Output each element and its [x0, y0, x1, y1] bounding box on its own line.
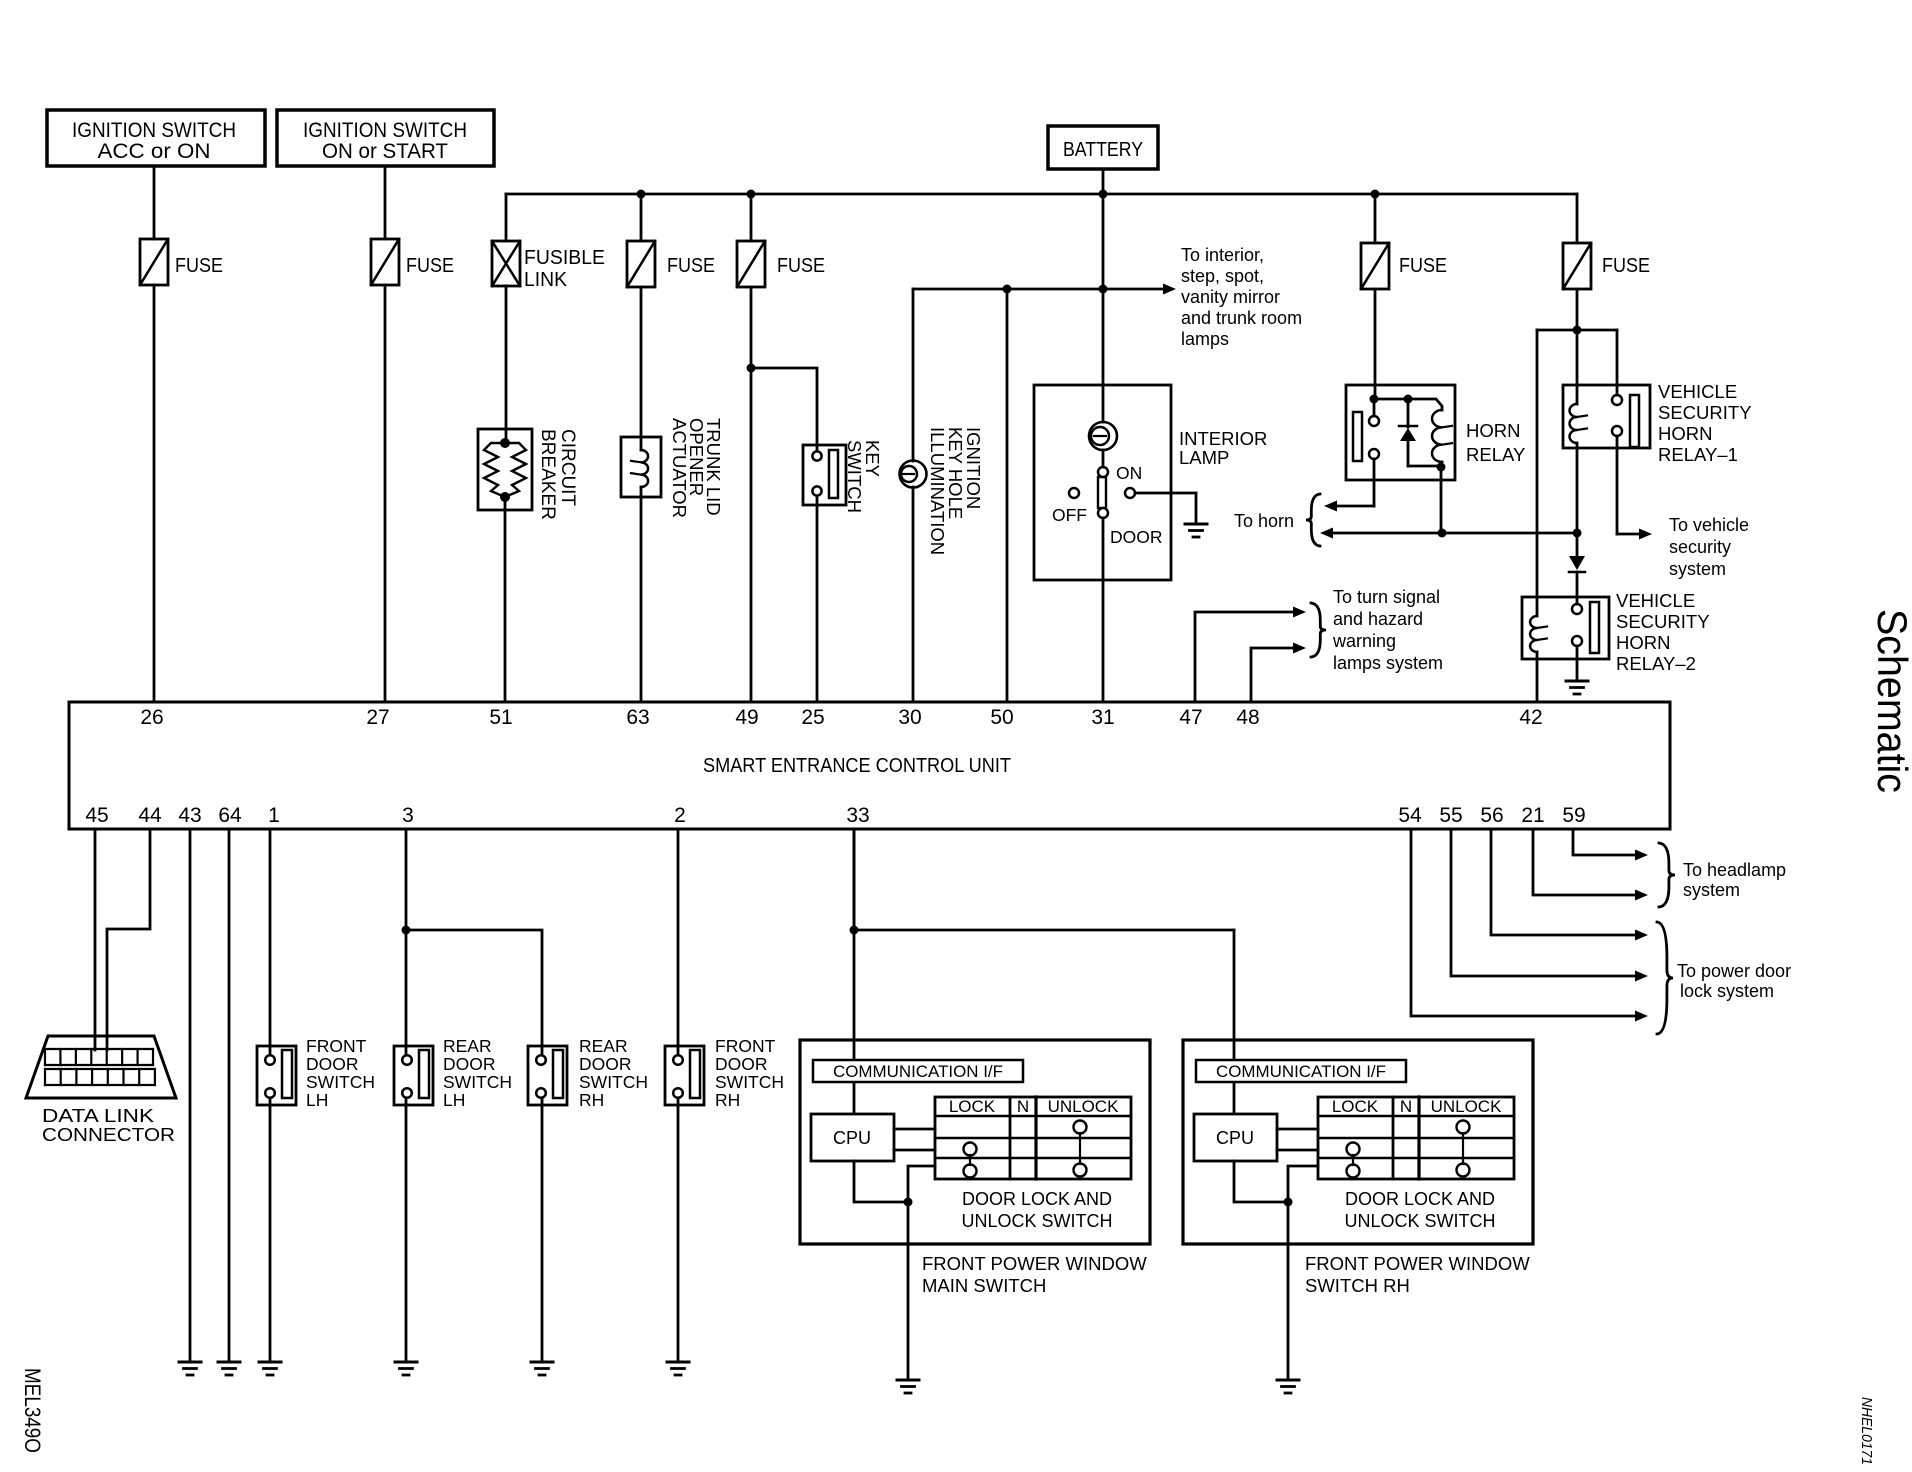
svg-text:LH: LH	[306, 1090, 328, 1110]
svg-text:system: system	[1683, 880, 1740, 900]
svg-text:DOOR: DOOR	[1110, 527, 1163, 547]
svg-text:UNLOCK: UNLOCK	[1431, 1097, 1503, 1116]
svg-text:ACTUATOR: ACTUATOR	[669, 418, 690, 518]
svg-text:HORN: HORN	[1466, 420, 1520, 441]
svg-text:55: 55	[1439, 804, 1462, 827]
svg-text:UNLOCK SWITCH: UNLOCK SWITCH	[1344, 1211, 1495, 1231]
svg-text:49: 49	[735, 706, 758, 729]
svg-text:lock system: lock system	[1680, 981, 1774, 1001]
svg-text:SECURITY: SECURITY	[1658, 402, 1752, 423]
svg-text:DOOR LOCK AND: DOOR LOCK AND	[1345, 1189, 1495, 1209]
svg-text:FRONT: FRONT	[715, 1036, 776, 1056]
svg-text:HORN: HORN	[1616, 632, 1670, 653]
svg-text:HORN: HORN	[1658, 423, 1712, 444]
svg-text:RELAY: RELAY	[1466, 444, 1525, 465]
svg-text:SWITCH: SWITCH	[715, 1072, 784, 1092]
svg-text:DOOR: DOOR	[579, 1054, 632, 1074]
svg-text:CIRCUIT: CIRCUIT	[557, 429, 578, 506]
svg-text:30: 30	[898, 706, 921, 729]
svg-text:59: 59	[1562, 804, 1585, 827]
svg-text:LOCK: LOCK	[1332, 1097, 1379, 1116]
svg-text:REAR: REAR	[443, 1036, 492, 1056]
svg-text:LOCK: LOCK	[949, 1097, 996, 1116]
svg-text:and hazard: and hazard	[1333, 609, 1423, 629]
svg-text:FRONT POWER WINDOW: FRONT POWER WINDOW	[922, 1253, 1147, 1274]
svg-text:DOOR: DOOR	[443, 1054, 496, 1074]
svg-text:MEL349O: MEL349O	[20, 1368, 45, 1453]
svg-text:vanity mirror: vanity mirror	[1181, 287, 1280, 307]
svg-text:step, spot,: step, spot,	[1181, 266, 1264, 286]
svg-text:SWITCH: SWITCH	[579, 1072, 648, 1092]
svg-text:25: 25	[801, 706, 824, 729]
svg-text:To horn: To horn	[1234, 511, 1294, 531]
svg-text:31: 31	[1091, 706, 1114, 729]
svg-text:FRONT: FRONT	[306, 1036, 367, 1056]
svg-text:BATTERY: BATTERY	[1063, 139, 1143, 161]
svg-text:system: system	[1669, 559, 1726, 579]
svg-text:47: 47	[1179, 706, 1202, 729]
svg-text:DOOR LOCK AND: DOOR LOCK AND	[962, 1189, 1112, 1209]
svg-text:COMMUNICATION I/F: COMMUNICATION I/F	[1216, 1062, 1386, 1081]
svg-text:63: 63	[626, 706, 649, 729]
svg-text:To turn signal: To turn signal	[1333, 587, 1440, 607]
svg-text:FUSE: FUSE	[1602, 255, 1650, 277]
svg-text:To interior,: To interior,	[1181, 245, 1264, 265]
svg-text:IGNITION SWITCH: IGNITION SWITCH	[303, 119, 467, 142]
svg-text:27: 27	[366, 706, 389, 729]
svg-text:To power door: To power door	[1677, 961, 1791, 981]
svg-text:FRONT POWER WINDOW: FRONT POWER WINDOW	[1305, 1253, 1530, 1274]
svg-text:FUSIBLE: FUSIBLE	[524, 247, 605, 269]
svg-text:warning: warning	[1332, 631, 1396, 651]
svg-text:VEHICLE: VEHICLE	[1616, 590, 1695, 611]
svg-text:NHEL0171: NHEL0171	[1858, 1397, 1874, 1465]
svg-text:SWITCH: SWITCH	[306, 1072, 375, 1092]
svg-text:50: 50	[990, 706, 1013, 729]
svg-text:ON or START: ON or START	[322, 140, 448, 163]
svg-text:21: 21	[1521, 804, 1544, 827]
svg-text:RH: RH	[715, 1090, 740, 1110]
svg-text:FUSE: FUSE	[667, 255, 715, 277]
svg-text:UNLOCK: UNLOCK	[1048, 1097, 1120, 1116]
svg-text:security: security	[1669, 537, 1731, 557]
svg-text:RELAY–2: RELAY–2	[1616, 653, 1696, 674]
svg-text:3: 3	[402, 804, 414, 827]
svg-text:FUSE: FUSE	[1399, 255, 1447, 277]
svg-text:MAIN SWITCH: MAIN SWITCH	[922, 1275, 1046, 1296]
svg-text:42: 42	[1519, 706, 1542, 729]
svg-text:UNLOCK SWITCH: UNLOCK SWITCH	[961, 1211, 1112, 1231]
svg-text:SMART ENTRANCE CONTROL UNIT: SMART ENTRANCE CONTROL UNIT	[703, 755, 1011, 777]
svg-text:1: 1	[268, 804, 280, 827]
svg-text:REAR: REAR	[579, 1036, 628, 1056]
svg-text:BREAKER: BREAKER	[537, 429, 558, 520]
svg-text:FUSE: FUSE	[777, 255, 825, 277]
svg-text:44: 44	[138, 804, 162, 827]
svg-text:FUSE: FUSE	[175, 255, 223, 277]
svg-text:lamps system: lamps system	[1333, 653, 1443, 673]
svg-text:VEHICLE: VEHICLE	[1658, 381, 1737, 402]
svg-text:LAMP: LAMP	[1179, 447, 1229, 468]
svg-text:FUSE: FUSE	[406, 255, 454, 277]
svg-text:51: 51	[489, 706, 512, 729]
svg-text:OFF: OFF	[1052, 505, 1087, 525]
svg-text:N: N	[1400, 1097, 1412, 1116]
svg-text:IGNITION SWITCH: IGNITION SWITCH	[72, 119, 236, 142]
svg-text:43: 43	[178, 804, 201, 827]
svg-text:CPU: CPU	[833, 1128, 871, 1148]
svg-text:Schematic: Schematic	[1869, 609, 1912, 793]
svg-text:RELAY–1: RELAY–1	[1658, 444, 1738, 465]
svg-text:26: 26	[140, 706, 163, 729]
svg-text:LH: LH	[443, 1090, 465, 1110]
svg-text:INTERIOR: INTERIOR	[1179, 428, 1267, 449]
svg-text:To vehicle: To vehicle	[1669, 515, 1749, 535]
svg-text:SWITCH: SWITCH	[844, 440, 865, 513]
svg-text:DATA LINK: DATA LINK	[42, 1106, 154, 1126]
svg-text:lamps: lamps	[1181, 329, 1229, 349]
svg-text:CONNECTOR: CONNECTOR	[42, 1125, 175, 1145]
svg-text:N: N	[1017, 1097, 1029, 1116]
svg-text:ACC or ON: ACC or ON	[98, 140, 211, 163]
svg-text:CPU: CPU	[1216, 1128, 1254, 1148]
svg-text:33: 33	[846, 804, 869, 827]
svg-text:56: 56	[1480, 804, 1503, 827]
svg-text:and trunk room: and trunk room	[1181, 308, 1302, 328]
svg-text:RH: RH	[579, 1090, 604, 1110]
svg-text:To headlamp: To headlamp	[1683, 860, 1786, 880]
svg-text:SWITCH: SWITCH	[443, 1072, 512, 1092]
svg-text:COMMUNICATION I/F: COMMUNICATION I/F	[833, 1062, 1003, 1081]
svg-text:SWITCH RH: SWITCH RH	[1305, 1275, 1410, 1296]
svg-text:DOOR: DOOR	[306, 1054, 359, 1074]
svg-text:64: 64	[218, 804, 242, 827]
svg-text:ON: ON	[1116, 463, 1142, 483]
svg-text:48: 48	[1236, 706, 1259, 729]
svg-text:SECURITY: SECURITY	[1616, 611, 1710, 632]
svg-text:DOOR: DOOR	[715, 1054, 768, 1074]
svg-text:LINK: LINK	[524, 269, 568, 291]
svg-text:54: 54	[1398, 804, 1422, 827]
svg-text:2: 2	[674, 804, 686, 827]
svg-text:ILLUMINATION: ILLUMINATION	[927, 427, 948, 555]
svg-text:45: 45	[85, 804, 108, 827]
